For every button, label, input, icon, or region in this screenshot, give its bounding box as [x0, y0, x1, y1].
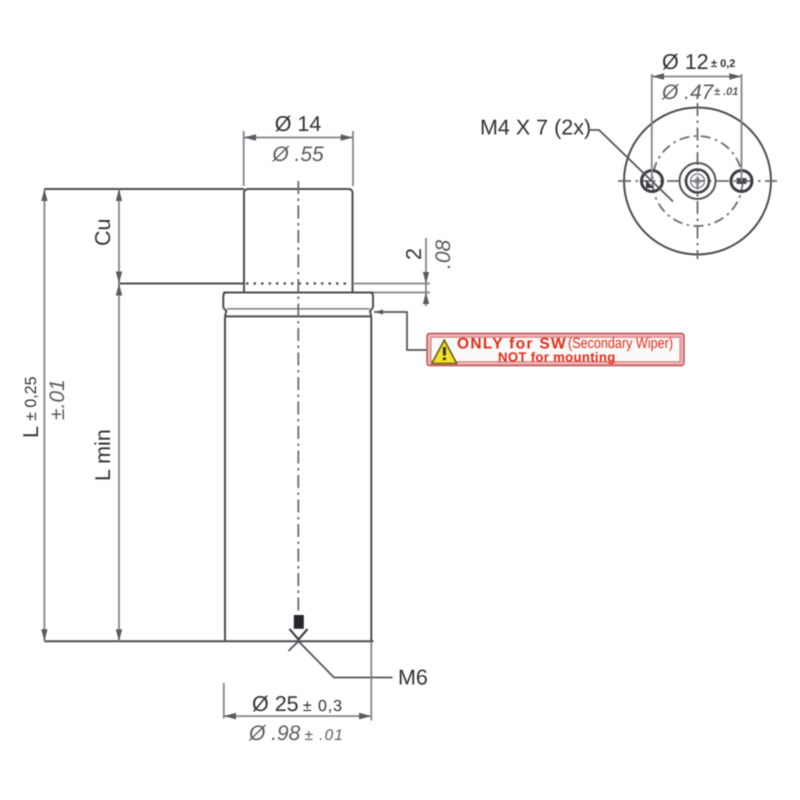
dim 2mm vertical line	[423, 238, 429, 306]
svg-text:± 0,2: ± 0,2	[711, 58, 735, 70]
dim Ø25 dimension line	[224, 713, 371, 720]
label Ø.55	[271, 143, 324, 166]
label 2	[402, 248, 426, 260]
label Ø12 ±0,2	[662, 50, 735, 74]
svg-text:L ± 0,25: L ± 0,25	[19, 376, 43, 438]
svg-text:M6: M6	[398, 666, 428, 690]
dim Ø25 extension lines	[224, 641, 371, 720]
svg-text:2: 2	[402, 248, 426, 260]
svg-text:Ø 14: Ø 14	[275, 112, 322, 136]
M6 thread symbol	[290, 615, 308, 640]
dim Ø12 dimension line	[652, 73, 742, 80]
svg-text:Ø 25 ± 0,3: Ø 25 ± 0,3	[252, 692, 343, 716]
dim Ø12 extension lines	[652, 74, 742, 181]
label Cu	[91, 219, 115, 246]
svg-text:± .01: ± .01	[714, 86, 738, 98]
svg-text:L min: L min	[91, 429, 115, 481]
dotted line shaft base	[246, 282, 351, 284]
dim Ø14 dimension line	[244, 134, 353, 141]
label Ø.47 ±.01	[661, 81, 738, 104]
flange plate	[223, 293, 373, 308]
warning text line2	[498, 350, 616, 365]
dim L dimension line	[41, 189, 47, 641]
mounting hole left	[642, 171, 663, 192]
svg-text:±.01: ±.01	[46, 379, 69, 420]
label .08	[432, 239, 455, 269]
body bottom line	[44, 640, 373, 642]
hub circle outer	[680, 163, 716, 199]
dim Cu / L min dimension line	[116, 189, 122, 641]
svg-text:M4 X 7 (2x): M4 X 7 (2x)	[480, 116, 591, 140]
label L ±0,25	[19, 376, 43, 438]
hub center mark	[696, 179, 700, 183]
label Ø25 ±0,3	[252, 692, 343, 716]
warning triangle	[432, 340, 457, 364]
flange top extension to 2mm dim	[373, 292, 430, 294]
end view bolt circle	[653, 136, 743, 226]
svg-text:NOT for mounting: NOT for mounting	[498, 350, 616, 365]
svg-text:Ø .55: Ø .55	[271, 143, 324, 166]
hub circle middle	[686, 170, 709, 193]
label Ø14	[275, 112, 322, 136]
label Ø.98 ±.01	[248, 722, 344, 745]
warning box	[427, 334, 684, 366]
end view centerline vertical	[697, 103, 699, 259]
svg-text:.08: .08	[432, 239, 455, 269]
wire right of shaft base to 2mm dim	[353, 283, 431, 285]
end view centerline horizontal	[618, 180, 777, 182]
label M4 X 7 (2x)	[480, 116, 591, 140]
body outline	[225, 316, 371, 641]
label ±.01 (L)	[46, 379, 69, 420]
svg-text:Ø 12: Ø 12	[662, 50, 709, 74]
M4 leader	[588, 130, 673, 202]
svg-text:Ø .98 ± .01: Ø .98 ± .01	[248, 722, 344, 745]
top reference line	[44, 188, 244, 190]
warning leader	[374, 310, 427, 351]
mounting hole right	[731, 171, 752, 192]
svg-text:Ø .47: Ø .47	[661, 81, 715, 104]
wire left of shaft base	[119, 283, 244, 285]
wiper ring groove	[223, 308, 373, 317]
center line vertical (side view)	[297, 181, 299, 611]
label M6	[398, 666, 428, 690]
M6 leader	[289, 641, 393, 677]
label L min	[91, 429, 115, 481]
warning text line1	[457, 335, 673, 353]
shaft outline	[244, 189, 353, 293]
hub circle inner	[691, 174, 705, 188]
svg-text:Cu: Cu	[91, 219, 115, 246]
end view outer circle	[624, 108, 771, 255]
dim Ø14 extension lines	[244, 131, 353, 186]
